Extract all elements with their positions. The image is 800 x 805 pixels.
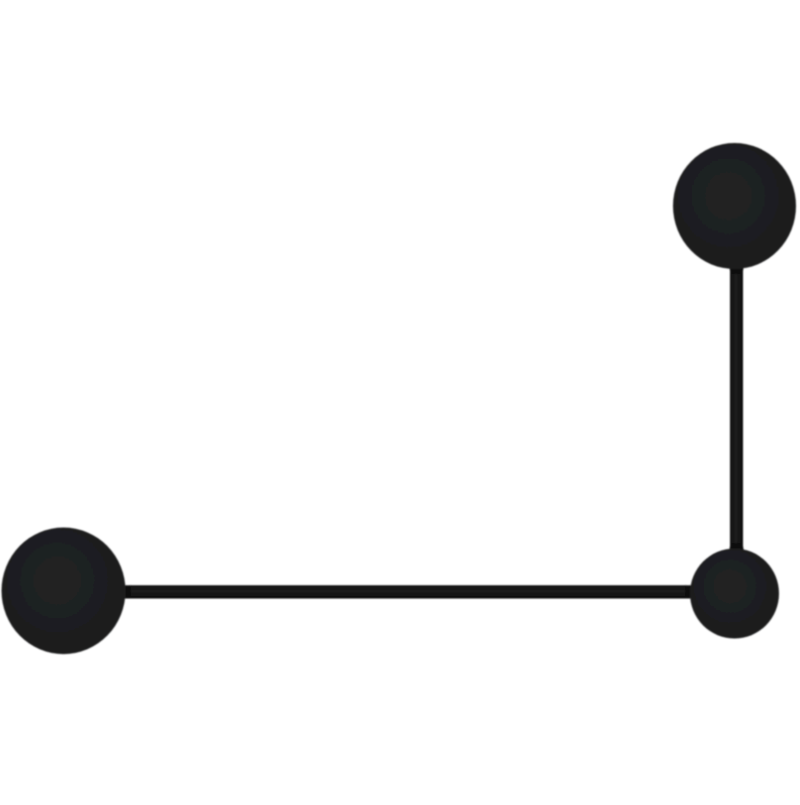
vertical arm rod xyxy=(730,230,743,560)
fillet at left disc to horizontal rod xyxy=(119,585,131,598)
horizontal arm rod xyxy=(62,585,722,598)
top-right lamp disc xyxy=(673,143,796,269)
fillet at top disc to vertical rod xyxy=(727,262,746,274)
fillet at bottom-right disc left to horizontal rod xyxy=(685,585,697,598)
fillet at bottom-right disc top to vertical rod xyxy=(727,543,746,555)
bottom-left lamp disc xyxy=(2,528,126,655)
bottom-right lamp disc xyxy=(690,549,779,639)
